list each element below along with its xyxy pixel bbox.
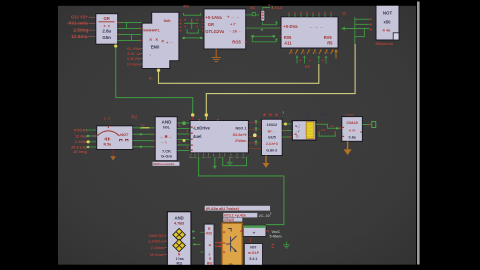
svg-text:G.Br-2: G.Br-2 [266, 148, 277, 152]
svg-text:G32 VS+: G32 VS+ [71, 15, 89, 20]
svg-text:R5: R5 [327, 41, 333, 46]
svg-text:TF: TF [141, 123, 145, 127]
svg-text:R,: R, [149, 76, 153, 81]
svg-text:AND: AND [175, 215, 184, 220]
svg-text:G5n: G5n [102, 35, 111, 40]
svg-text:✕: ✕ [161, 39, 164, 44]
svg-text:-LnDrive: -LnDrive [193, 126, 211, 131]
svg-text:12.6ma: 12.6ma [71, 34, 88, 40]
svg-text:GTs(2): GTs(2) [224, 218, 234, 222]
svg-text:R.5a: R.5a [104, 142, 113, 146]
svg-text:RO5: RO5 [232, 40, 241, 45]
svg-text:←2h ←: ←2h ← [229, 29, 243, 34]
svg-text:✕: ✕ [155, 37, 158, 42]
svg-text:← ↔ ←: ← ↔ ← [309, 24, 324, 29]
svg-text:NOT: NOT [383, 11, 393, 16]
svg-text:0.8a: 0.8a [349, 136, 357, 140]
svg-text:2.8a: 2.8a [102, 29, 111, 34]
svg-text:NOT: NOT [120, 133, 129, 137]
svg-text:GR: GR [208, 22, 214, 27]
svg-text:BC: BC [250, 6, 256, 10]
svg-text:+0-DVa: +0-DVa [283, 24, 298, 29]
svg-text:AND: AND [162, 119, 173, 124]
svg-text:→ ✱ ←: → ✱ ← [160, 134, 173, 139]
svg-text:KP: KP [305, 65, 311, 69]
svg-text:≋/ ←: ≋/ ← [267, 129, 276, 133]
svg-text:RV5: RV5 [324, 35, 333, 40]
svg-text:N?2.1 +p.42a: N?2.1 +p.42a [224, 214, 246, 218]
svg-text:GU5: GU5 [268, 136, 276, 140]
svg-text:x50: x50 [384, 20, 392, 25]
svg-text:Rfddderda: Rfddderda [376, 42, 394, 46]
svg-text:+ ← ←: + ← ← [227, 15, 240, 20]
svg-text:2.2403-a: 2.2403-a [148, 239, 164, 244]
svg-text:3nh: 3nh [163, 18, 171, 23]
svg-text:VacC: VacC [272, 230, 281, 234]
svg-text:SL.PMa: SL.PMa [127, 47, 142, 51]
svg-text:19312: 19312 [267, 123, 278, 127]
svg-text:2.50ng: 2.50ng [73, 28, 88, 34]
svg-text:10 Gma: 10 Gma [127, 62, 142, 66]
svg-text:GR: GR [104, 16, 110, 21]
svg-text:N: N [178, 253, 181, 257]
svg-text:N0T: N0T [250, 246, 256, 250]
svg-text:RC: RC [183, 3, 189, 8]
svg-text:+: + [253, 230, 256, 235]
svg-text:→ \: → \ [161, 141, 168, 145]
svg-text:←: ← [170, 40, 174, 45]
svg-text:10 6ma: 10 6ma [150, 252, 164, 257]
svg-text:EM0: EM0 [151, 45, 160, 50]
svg-text:2%9an: 2%9an [235, 139, 246, 143]
svg-text:≺ Λ-: ≺ Λ- [348, 128, 356, 132]
svg-text:20 0mg: 20 0mg [73, 149, 87, 154]
svg-text:R05: R05 [284, 35, 292, 40]
svg-text:←/: ←/ [295, 130, 299, 134]
svg-text:h0L: h0L [163, 125, 171, 130]
svg-text:C0A10: C0A10 [346, 121, 357, 125]
svg-text:R.2: R.2 [322, 112, 329, 117]
svg-text:(R.A0a aIU 7valse): (R.A0a aIU 7valse) [206, 207, 240, 211]
svg-text:⋄: ⋄ [208, 243, 211, 248]
svg-text:2C. 20: 2C. 20 [259, 214, 270, 218]
svg-text:IC: IC [343, 11, 347, 16]
svg-text:GTLG2Va: GTLG2Va [205, 29, 225, 34]
svg-text:≋≋≋≋\P1: ≋≋≋≋\P1 [143, 29, 160, 33]
svg-text:Pn: Pn [330, 124, 334, 128]
svg-text:2.4.h+3: 2.4.h+3 [266, 142, 278, 146]
svg-text:P.55 Rt: P.55 Rt [74, 127, 88, 132]
svg-text:R02: R02 [206, 232, 212, 236]
svg-text:N0O 1: N0O 1 [236, 126, 247, 130]
svg-text:5.4.1: 5.4.1 [249, 257, 257, 261]
svg-text:+ Γ: + Γ [230, 22, 236, 27]
svg-text:G2.6a+5: G2.6a+5 [233, 133, 247, 137]
svg-text:CMS G1: CMS G1 [149, 233, 165, 238]
svg-text:0-B Vfb: 0-B Vfb [127, 57, 141, 61]
svg-text:1?aa: 1?aa [176, 257, 184, 261]
svg-text:N: N [306, 113, 309, 118]
svg-text:4.7B3: 4.7B3 [174, 221, 184, 225]
svg-text:✕: ✕ [149, 37, 152, 42]
svg-text:⊥: ⊥ [208, 252, 211, 256]
svg-text:1.K1A: 1.K1A [272, 6, 283, 10]
svg-text:4uel: 4uel [193, 134, 201, 139]
svg-text:h.6: h.6 [321, 128, 326, 132]
svg-text:Lhasd: Lhasd [345, 112, 354, 116]
svg-text:2.19am: 2.19am [151, 245, 165, 250]
svg-text:RbRussewnke: RbRussewnke [153, 162, 174, 166]
svg-text:A11: A11 [284, 41, 292, 46]
svg-text:5-46am: 5-46am [270, 234, 282, 238]
svg-text:11 0ka: 11 0ka [75, 133, 88, 138]
svg-text:R2: R2 [131, 115, 137, 120]
svg-text:x x: x x [104, 24, 111, 28]
svg-text:-h 4a: -h 4a [382, 29, 391, 33]
svg-text:s_2: s_2 [104, 116, 111, 121]
svg-text:G-Gm: G-Gm [161, 154, 173, 159]
svg-text:+0-1AVa: +0-1AVa [205, 15, 222, 20]
svg-text:5-0t ¼a: 5-0t ¼a [127, 52, 141, 56]
svg-text:m.GLF: m.GLF [248, 251, 260, 255]
